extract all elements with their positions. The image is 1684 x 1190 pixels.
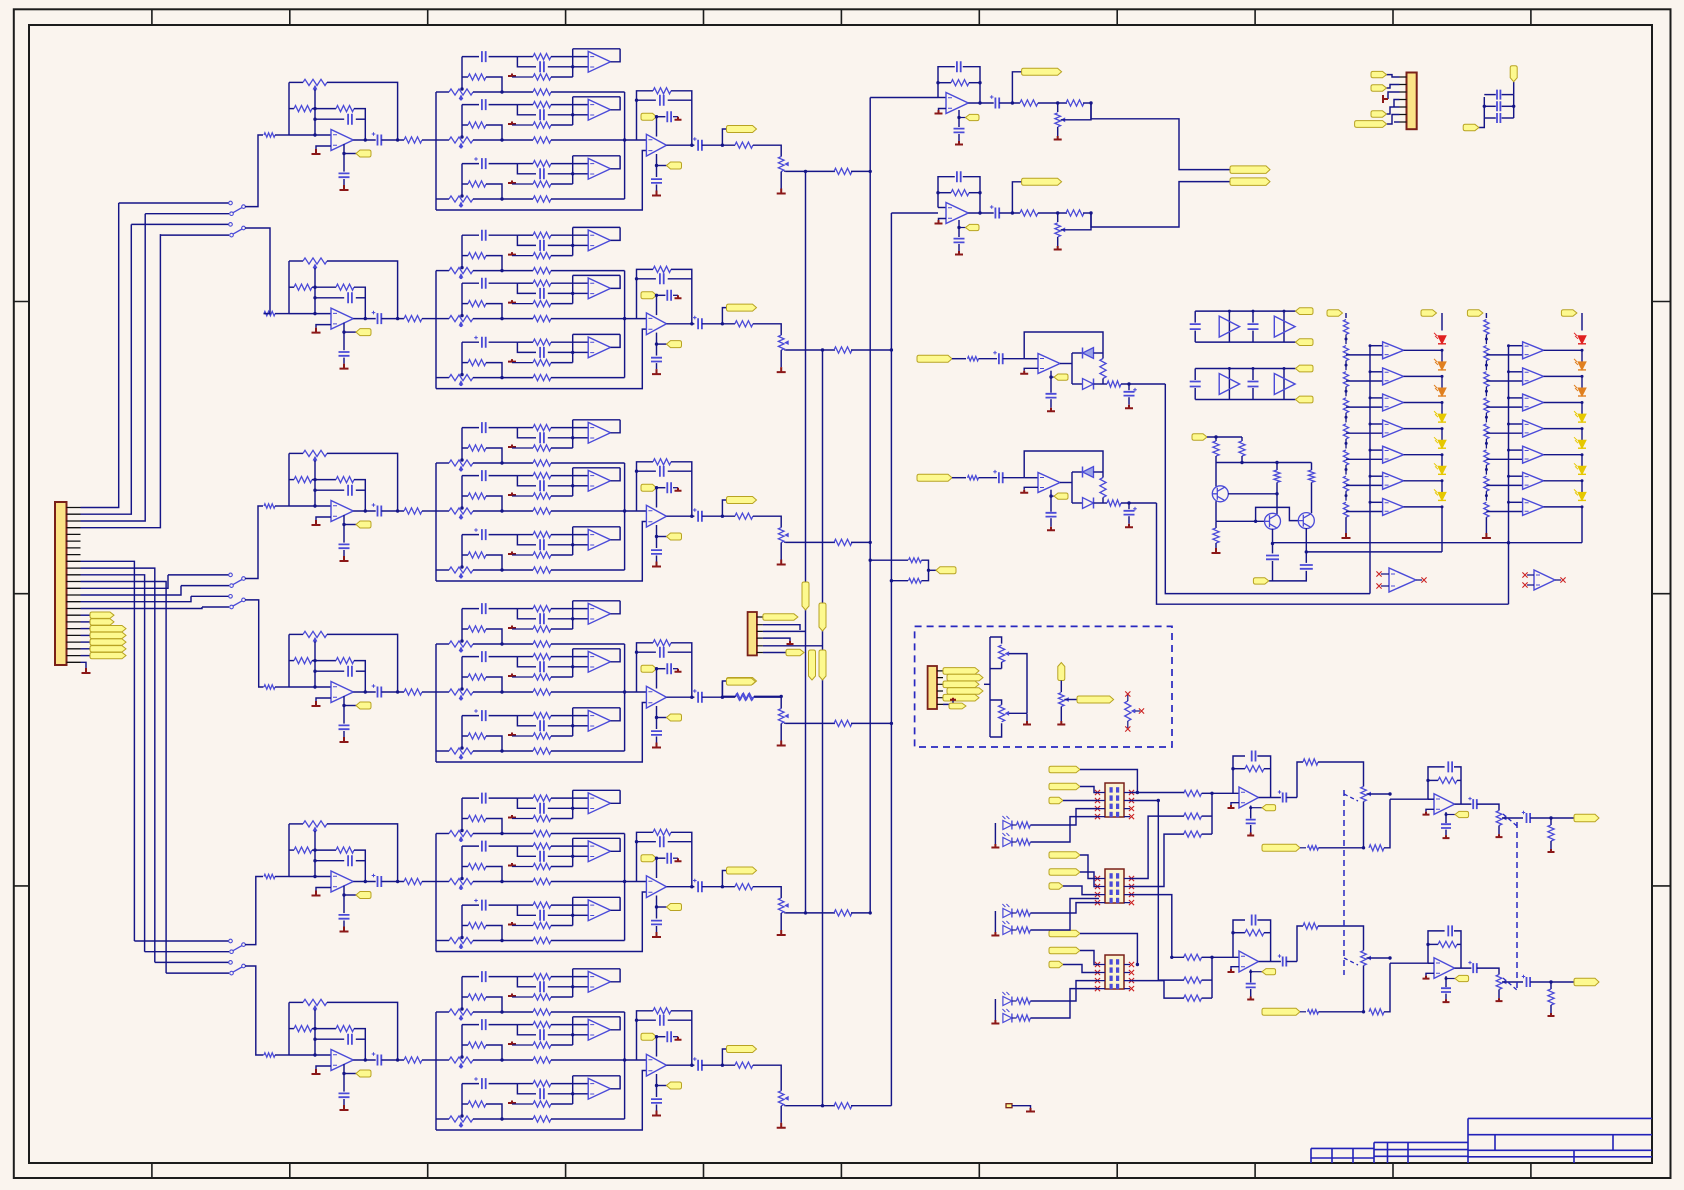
ground rectifier 1 bypass [1047,408,1055,412]
wire bias R2 top [1241,437,1243,441]
CH4 cell3 wire R-left to rail [486,736,502,751]
capacitor bulk C3 [1497,113,1500,123]
net label output proc 1 U1 [1262,805,1276,811]
op-amp CH3 input buffer [331,501,353,522]
mixer B pot stub [1057,213,1059,222]
CH4 cell1 fb left vert lower [572,619,574,629]
CH6 cell2 wire down to mid cap [517,1025,536,1035]
resistor VU col 2 ladder R4 [1484,398,1489,413]
op-amp CH6 output [646,1054,666,1076]
capacitor CH4 cell3 C-in [482,710,486,721]
wire bias label rail [1207,436,1242,438]
CH3 cell2 fb top wire [573,467,620,469]
junction mux1 pin2 feed [1157,799,1160,802]
resistor CH6 cell1 R-gnd [533,994,551,1000]
output proc 2 wire to U2 [1390,962,1434,964]
op-amp CH5 output [646,876,666,898]
CH6 cell1 wire gnd to R-gnd [512,996,533,998]
rectifier 2 -in wire [1024,477,1038,479]
CH3 out bypass vert2 [656,556,658,562]
wire J5 to ground [1012,1106,1031,1108]
output proc 1 vca top left [1297,762,1303,798]
net label doubler 1 top [1296,308,1314,315]
CH4 cell1 wire R-left to rail [486,629,502,644]
output proc 2 U2 label stub [1446,978,1455,980]
resistor CH5 bus [834,910,852,916]
VU col 2 cmp4 bus tap [1507,423,1510,426]
wire mid lbl1 [1080,855,1099,879]
CH1 cell2 wire cap to node [489,104,518,106]
CH1 rail3 b [473,198,533,200]
wire Q1 base link [1228,493,1277,495]
CH6 cell2 wire to +in [573,1034,589,1036]
wire Q3 emitter down [1305,528,1307,563]
junction return B / Q3 [1305,550,1308,553]
mixer B fb vert left [938,177,955,208]
CH4 +in wire [316,698,331,701]
CH2 rail1 b [473,270,533,272]
resistor CH4 cell1 R-gnd [533,626,551,632]
CH3 out bypass vert [656,525,658,548]
CH6 cell2 wiper junction [460,1055,463,1058]
CH4 rail2 mid [312,660,336,662]
capacitor CH3 cell2 C-in [482,470,486,481]
CH5 cell2 fb left vert [572,838,574,856]
VU col 1 cmp6 -in wire [1370,475,1383,477]
resistor CH1 band2 sum [533,137,551,143]
CH3 cell1 wire down to mid cap [517,428,536,438]
net label output L [1230,166,1270,174]
CH1 aux cap wire [657,116,666,118]
rectifier 1 out wire [1060,363,1072,365]
CH4 out wire b [702,696,735,698]
CH1 top rail right + vert [327,82,398,140]
CH3 cell1 fb top wire [573,419,620,421]
rectifier 2 wire to opamp [1003,477,1025,479]
mixer A out wire a [968,102,993,104]
net label doubler 2 bottom [1296,396,1314,403]
CH3 cap fb left wire [315,489,344,491]
CH2 cell3 wire R to -in [551,341,588,343]
resistor VU col 2 ladder R1 [1484,320,1489,335]
CH2 cell2 wire down to mid cap [517,283,536,293]
CH5 cell3 wire R-left to rail [486,926,502,941]
comparator VU col 2 U4 [1523,420,1544,437]
wire mid mux to group1 R2 [1129,816,1184,878]
CH6 aux vert [656,1037,658,1057]
title block [1311,1118,1652,1163]
output proc 2 lbl1 junction [1136,963,1139,966]
resistor CH1 cell2 R-left [468,122,486,128]
mixer B fb R wire r [969,192,980,194]
CH6 bypass vert2 [343,1099,345,1105]
output proc 1 depth wire b [1319,847,1364,849]
CH4 cell3 rail junction [500,749,503,752]
output proc 2 U1 out wire [1259,961,1281,963]
CH6 aux gnd wire [673,1036,678,1038]
CH1 cap fb left wire [315,118,344,120]
op-amp CH2 input buffer [331,308,353,329]
VU col 1 ladder bottom wire [1345,517,1347,533]
CH3 cell2 wire cap to node [489,475,518,477]
junction base weave [1254,520,1257,523]
resistor CH1 Rin series [264,133,275,137]
net label vertical bus L1 [802,582,809,610]
VU col 1 rail seg 4 [1441,429,1443,445]
CH5 cell3 wire mid cap to fb node [548,914,573,916]
CH4 cell1 wiper junction [460,639,463,642]
CH3 cell2 wire R-left to rail [486,496,502,511]
CH6 bottom fb loop [436,1071,646,1131]
CH3 out label2 junction [655,535,658,538]
op-amp CH1 output [646,134,666,156]
resistor rectifier 1 load [1100,359,1106,379]
CH1 cell3 wire R-gnd to fb vert [551,183,573,185]
CH1 out label junction [721,144,724,147]
CH1 out fb cap junction [635,99,638,102]
CH5 pot gnd vert [780,913,782,930]
wire tap b [891,580,908,582]
transistor Q2 [1265,513,1281,529]
CH4 output wire b [381,691,404,693]
ground mixer B +in [935,220,943,224]
output proc 2 U2 out wire2 [1477,968,1499,974]
VU col 1 cmp3 out junction [1441,401,1444,404]
output proc 1 U1 label stub [1251,807,1262,809]
rectifier 2 filter cap stub [1128,503,1130,509]
CH5 out fb left vert [637,832,654,881]
CH6 cell3 fb left vert lower [572,1094,574,1104]
wire bias C1 bottom [1272,561,1274,581]
CH4 cell1 fb left vert [572,601,574,619]
op-amp CH3 cell1 [588,422,610,443]
ground output proc 1 U1 bypass [1247,833,1254,836]
op-amp buffer 2 [1534,570,1555,590]
CH2 cell1 left node wire [461,235,463,267]
net label CH3 fb [641,484,657,491]
CH2 cell2 fb left vert [572,275,574,293]
capacitor CH6 C-bypass [339,1093,350,1097]
wire J1 pin23 label [81,655,91,657]
CH4 top rail left [289,633,303,635]
CH5 +in wire [316,888,331,891]
ground rectifier 2 filter [1125,524,1133,528]
VU col 1 rail seg 3 [1441,403,1443,419]
VU col 2 ladder top wire [1485,313,1487,318]
CH4 input wire [275,686,289,688]
wire J1 pin1 to sw1 line [81,203,119,508]
capacitor CH1 C-out coupling [378,135,382,146]
CH5 fb rail junction [396,880,399,883]
capacitor CH5 cell2 C-in [482,841,486,852]
CH1 rail2 a [436,139,449,141]
CH4 wiper/rail2 junction [313,659,316,662]
connector J4 pins [937,671,943,705]
output proc 1 U2 out wire [1455,803,1472,805]
CH3 out label junction [721,515,724,518]
op-amp CH4 input buffer [331,682,353,703]
resistor CH5 band3 sum [533,937,551,943]
CH6 cell2 wire to R-in [517,1024,533,1026]
CH1 rail1 a [436,91,449,93]
CH6 cell2 wire to R-left [462,1044,468,1046]
CH1 out label2 junction [655,164,658,167]
VU col 2 cmp5 bus tap [1507,449,1510,452]
resistor mixer B R1 [1020,210,1038,216]
ground CH1 +in [312,149,321,154]
op-amp CH2 output [646,313,666,335]
CH5 cell3 rail junction [500,939,503,942]
net label J4 aux [949,703,966,709]
connector J4 (option header) [928,666,937,709]
capacitor CH2 out bypass [651,358,662,362]
CH3 filter left bus [435,463,437,581]
wire J3 pin7 [1394,121,1400,123]
CH3 cell3 rail junction [500,568,503,571]
output proc 2 outR junction [1549,980,1552,983]
capacitor output proc 2 U1 coupling [1283,957,1287,967]
capacitor mixer A fb [957,61,961,72]
VU col 2 cmp1 -in wire [1509,345,1523,347]
ground trimmers [1023,721,1031,725]
output proc 1 U2 fb right [1454,767,1461,804]
CH3 cell1 wire to R-left [462,447,468,449]
CH3 aux cap wire [657,487,666,489]
capacitor CH4 cell2 C-mid [540,661,544,672]
op-amp CH1 cell1 [588,51,610,72]
potentiometer CH4 gain pot [303,631,327,637]
resistor VU col 2 ladder R3 [1484,372,1489,387]
op-amp rectifier 1 [1038,354,1060,374]
vertical bus V2 [822,350,824,1106]
CH6 cell2 wire to cap [462,1024,479,1026]
net label output proc 2 in1 [1049,930,1080,937]
CH5 cell2 rail junction [500,880,503,883]
CH4 filter left bus [435,644,437,762]
resistor indicator 1 A [1016,822,1030,828]
CH3 rail2 c [551,510,646,512]
capacitor CH4 Cfb [348,666,352,677]
CH6 cell1 wire to +in [573,986,589,988]
CH2 out fb cap wire r [668,278,692,280]
ground output proc 2 master [1496,998,1503,1001]
wire VU return B [1306,551,1442,553]
VU col 1 cmp3 -in wire [1370,397,1383,399]
CH5 cell2 wire to +in [573,855,589,857]
CH2 cell2 fb top wire [573,274,620,276]
diode doubler 1 D1 [1219,316,1239,337]
mixer A label stub [959,117,966,119]
capacitor output proc 1 U2 fb [1448,761,1452,772]
CH1 sum mid junction [623,138,626,141]
resistor VU col 1 ladder R2 [1343,346,1348,361]
mixer A fb vert left [938,67,955,98]
op-amp output proc 2 U2 [1434,958,1455,979]
CH4 out label2 stub [657,717,667,719]
LED VU col 2 4 [1578,414,1586,422]
CH1 rail2 b [473,139,533,141]
capacitor output proc 2 out [1527,977,1531,987]
CH6 cell2 fb top wire [573,1016,620,1018]
analog switch U mid pin stubs [1099,879,1130,903]
op-amp CH4 cell3 [588,710,610,731]
resistor CH1 cell1 R-left [468,74,486,80]
wire aux label to R [722,682,736,697]
potentiometer CH6 level [778,1091,784,1106]
capacitor CH6 aux [667,1031,671,1042]
output proc 1 vca pot down [1363,802,1365,848]
ground J2 [787,641,794,644]
mixer A fb R wire r [969,82,980,84]
VU col 2 rail seg 6 [1581,481,1583,497]
CH4 cell3 fb node [571,724,574,727]
CH6 wire to level pot [753,1065,781,1091]
VU col 1 cmp2 out junction [1441,375,1444,378]
CH6 out label2 stub [657,1085,667,1087]
op-amp CH5 cell1 [588,793,610,814]
CH1 cell3 wire down to mid cap [517,164,536,174]
VU col 1 ladder tap 5 [1345,442,1348,445]
dashed option box [915,626,1172,747]
rectifier 1 diode top wire r [1094,352,1104,354]
resistor bias R4 [1308,470,1314,482]
CH6 cell3 fb right vert to output [611,1076,621,1089]
indicator mid wire b [1012,929,1017,931]
VU col 1 ladder wire 1 [1345,335,1347,345]
rectifier 1 out wire2 [1103,383,1107,385]
VU col 1 cmp1 out wire [1404,349,1442,351]
VU col 2 cmp6 +in wire [1486,484,1522,486]
CH5 out fb cap wire l [637,841,656,843]
VU col 2 cmp1 out junction [1581,349,1584,352]
ground CH5 level pot [777,930,786,935]
ground output proc 1 U1 [1228,805,1235,808]
op-amp mixer A [946,93,968,114]
CH5 cell2 wire R-gnd to fb vert [551,866,573,868]
net label bias out [1253,578,1268,584]
CH4 aux cap wire [657,668,666,670]
CH3 cell3 wire mid cap to fb node [548,544,573,546]
capacitor CH3 out Cfb [660,466,664,477]
CH5 cell1 fb node [571,807,574,810]
wire mid led b [1030,899,1099,931]
wire trim1 top [990,637,1002,644]
output proc 1 sum wire 2 [1202,815,1212,817]
rectifier 2 out vert [1071,472,1073,503]
ground rectifier 2 bypass [1047,527,1055,531]
net label doubler 1 bottom [1296,339,1314,346]
output proc 2 U2 out wire [1455,967,1472,969]
wire caps to V+ label [1513,82,1515,95]
net label J4 pin5 [943,694,979,701]
CH5 bypass vert2 [343,921,345,927]
CH1 cell3 fb node [571,172,574,175]
CH1 wiper/rail2 junction [313,107,316,110]
resistor CH2 cell3 R-in [533,339,551,345]
ground CH2 cell1 [508,252,516,255]
output proc 2 U1 +in [1231,967,1239,969]
CH6 cell1 fb top wire [573,968,620,970]
CH1 summing vert [624,92,626,199]
potentiometer CH2 level [778,335,784,350]
resistor output proc 2 sum2 [1184,977,1202,983]
dashed gang line LDR pots [1343,790,1345,975]
mixer A fb vert right [963,67,980,103]
analog switch U 1 [1105,783,1124,817]
CH1 cell2 wire down to mid cap [517,105,536,115]
wire CH5 wiper to bus a [785,912,835,914]
switch feed wire a [168,574,229,576]
capacitor output proc 1 U1 coupling [1283,793,1287,803]
output proc 1 U1 fbR wire l [1233,768,1245,770]
mixer A out wire b [999,102,1020,104]
trimmer TR2 [999,705,1005,722]
wire J3 pin4 [1394,100,1400,108]
output proc 1 U1 bypass vert2 [1250,825,1252,833]
wire Q1 emitter to Q2 base [1216,520,1265,522]
CH5 aux gnd wire [673,857,678,859]
CH3 left vert [288,453,290,506]
CH4 output wire c [422,691,436,693]
CH4 cell1 wire to +in [573,618,589,620]
CH2 cell3 wire gnd to R-gnd [512,362,533,364]
wire TR3 wiper [1135,710,1140,712]
switch feed wire b [145,951,229,953]
CH5 cell2 wire R to -in [551,845,588,847]
CH2 aux vert [656,295,658,315]
CH2 output junction [364,317,367,320]
wire J4 to trim bus [984,683,990,685]
mixer A out junction [978,101,981,104]
CH5 output junction [364,880,367,883]
CH5 cell2 wire down to mid cap [517,846,536,856]
VU col 2 ladder wire 3 [1485,387,1487,397]
output proc 1 vca top right [1318,762,1364,787]
resistor CH6 band1 sum [533,1009,551,1015]
capacitor CH6 out coupling [698,1060,702,1071]
output proc 1 U2 fbR wire l [1428,779,1438,781]
CH1 cell2 fb top wire [573,96,620,98]
wire cap C2 l [1484,105,1496,107]
wire tap b2 [922,570,929,580]
resistor CH3 bus [834,539,852,545]
CH6 cell3 wire R-gnd to fb vert [551,1103,573,1105]
CH2 cell3 wire to +in [573,351,589,353]
CH4 cell3 wire to +in [573,725,589,727]
CH3 top rail left [289,452,303,454]
CH5 cell1 wire cap to node [489,797,518,799]
comparator VU col 1 U1 [1383,342,1404,359]
CH5 cell1 wiper junction [460,829,463,832]
wire J1 pin11 to sw3 line [81,575,145,952]
switch upper [230,950,234,954]
wire mid mux to group2 R1 [1129,895,1184,958]
capacitor CH5 C-bypass [339,915,350,919]
wire CH4 wiper to bus a [785,722,835,724]
VU col 1 ladder wire 3 [1345,387,1347,397]
resistor CH6 band3 sum [533,1116,551,1122]
net label mixer B [966,224,980,230]
capacitor CH6 C-out coupling [378,1055,382,1066]
CH3 cell1 fb node [571,436,574,439]
capacitor doubler 1 C1 [1190,324,1201,329]
ground CH4 out bypass [652,743,661,748]
rectifier 1 filter cap stub [1128,384,1130,390]
CH1 out wire a [667,144,695,146]
doubler 2 junction t1 [1228,367,1231,370]
CH6 cell2 fb left vert [572,1017,574,1035]
ground VU col 2 ladder [1482,533,1491,538]
